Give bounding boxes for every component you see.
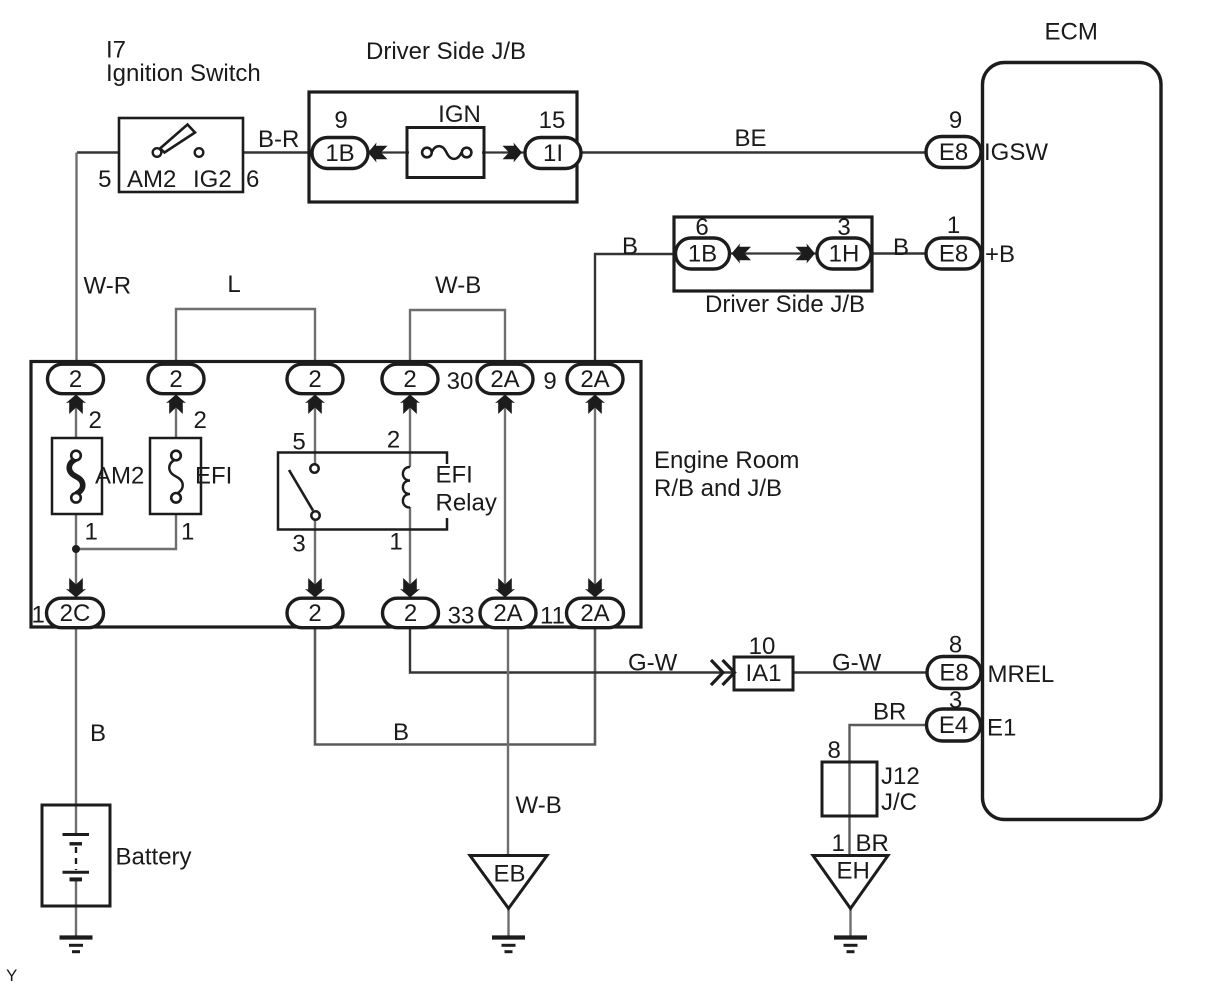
svg-text:ECM: ECM <box>1045 19 1098 46</box>
svg-text:3: 3 <box>949 687 962 714</box>
svg-text:1: 1 <box>181 519 194 546</box>
svg-text:W-R: W-R <box>84 273 132 300</box>
svg-text:2: 2 <box>69 366 82 393</box>
svg-text:2: 2 <box>169 366 182 393</box>
svg-text:B: B <box>893 234 909 261</box>
svg-text:6: 6 <box>246 166 259 193</box>
svg-text:9: 9 <box>543 368 556 395</box>
svg-text:MREL: MREL <box>988 661 1055 688</box>
svg-text:W-B: W-B <box>435 272 481 299</box>
svg-text:AM2: AM2 <box>127 166 176 193</box>
svg-text:B-R: B-R <box>258 126 299 153</box>
svg-text:1I: 1I <box>543 140 563 167</box>
svg-text:2A: 2A <box>580 366 609 393</box>
svg-text:B: B <box>622 233 638 260</box>
svg-text:5: 5 <box>98 166 111 193</box>
svg-text:15: 15 <box>539 107 566 134</box>
svg-text:Engine Room: Engine Room <box>654 447 799 474</box>
svg-text:2A: 2A <box>490 366 519 393</box>
svg-text:1B: 1B <box>325 140 354 167</box>
svg-text:9: 9 <box>949 107 962 134</box>
svg-text:BR: BR <box>873 699 906 726</box>
svg-text:10: 10 <box>749 633 776 660</box>
svg-text:2: 2 <box>403 366 416 393</box>
svg-text:1: 1 <box>32 602 45 629</box>
svg-text:J12: J12 <box>881 763 920 790</box>
svg-text:IGN: IGN <box>438 101 481 128</box>
svg-text:G-W: G-W <box>832 650 882 677</box>
svg-text:EB: EB <box>494 861 526 888</box>
svg-text:1H: 1H <box>829 241 860 268</box>
svg-text:2: 2 <box>89 407 102 434</box>
svg-text:Ignition Switch: Ignition Switch <box>106 60 261 87</box>
svg-text:2C: 2C <box>60 600 91 627</box>
svg-text:8: 8 <box>949 632 962 659</box>
svg-text:E8: E8 <box>939 139 968 166</box>
svg-text:Y: Y <box>6 966 17 985</box>
svg-text:R/B and J/B: R/B and J/B <box>654 475 782 502</box>
svg-text:5: 5 <box>292 429 305 456</box>
svg-text:BE: BE <box>735 125 767 152</box>
svg-text:IGSW: IGSW <box>984 139 1048 166</box>
svg-text:33: 33 <box>448 603 475 630</box>
svg-text:BR: BR <box>856 830 889 857</box>
svg-text:G-W: G-W <box>628 650 678 677</box>
svg-text:1: 1 <box>832 830 845 857</box>
svg-text:8: 8 <box>828 737 841 764</box>
svg-text:3: 3 <box>837 214 850 241</box>
svg-text:J/C: J/C <box>881 789 917 816</box>
svg-text:EFI: EFI <box>436 462 473 489</box>
svg-text:B: B <box>90 720 106 747</box>
svg-text:EH: EH <box>837 858 870 885</box>
svg-text:2: 2 <box>308 600 321 627</box>
svg-text:2: 2 <box>387 427 400 454</box>
svg-text:2A: 2A <box>493 600 522 627</box>
svg-text:1: 1 <box>389 529 402 556</box>
svg-text:E8: E8 <box>939 660 968 687</box>
svg-text:1B: 1B <box>688 241 717 268</box>
svg-text:B: B <box>393 719 409 746</box>
svg-text:2: 2 <box>404 600 417 627</box>
svg-text:L: L <box>227 271 240 298</box>
svg-text:2: 2 <box>308 366 321 393</box>
svg-text:11: 11 <box>540 603 565 630</box>
svg-text:+B: +B <box>985 241 1015 268</box>
svg-text:1: 1 <box>85 519 98 546</box>
svg-text:E1: E1 <box>987 715 1016 742</box>
svg-text:IA1: IA1 <box>745 660 781 687</box>
svg-text:Relay: Relay <box>436 490 497 517</box>
svg-text:Driver Side J/B: Driver Side J/B <box>366 38 526 65</box>
svg-text:E4: E4 <box>939 712 968 739</box>
svg-text:Driver Side J/B: Driver Side J/B <box>705 291 865 318</box>
svg-text:3: 3 <box>292 531 305 558</box>
svg-text:EFI: EFI <box>195 463 232 490</box>
svg-text:W-B: W-B <box>516 792 562 819</box>
svg-text:AM2: AM2 <box>95 463 144 490</box>
svg-text:2A: 2A <box>580 600 609 627</box>
svg-text:2: 2 <box>194 407 207 434</box>
svg-text:Battery: Battery <box>116 844 192 871</box>
svg-text:6: 6 <box>695 214 708 241</box>
svg-text:E8: E8 <box>939 241 968 268</box>
svg-text:9: 9 <box>334 107 347 134</box>
svg-text:30: 30 <box>447 368 474 395</box>
svg-text:IG2: IG2 <box>193 166 232 193</box>
svg-text:1: 1 <box>947 212 960 239</box>
